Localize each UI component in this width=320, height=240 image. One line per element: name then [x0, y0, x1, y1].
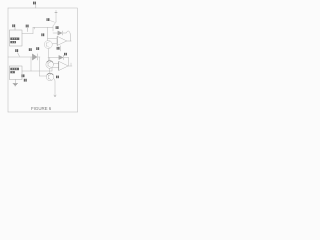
wire Q3 emitter down long [54, 79, 55, 97]
wire leader label 20 to wire A [15, 49, 18, 52]
wire after D1 [38, 56, 40, 58]
label 10 V+ [33, 2, 36, 5]
label 24 above D1 right [36, 47, 39, 50]
transistor Q3 [46, 73, 54, 81]
wire A left horizontal [8, 56, 32, 58]
wire below box B2 [14, 80, 16, 84]
diode D2 feedback [58, 31, 63, 35]
wire top rail [8, 7, 77, 9]
label 44 speck near D3 [64, 53, 67, 56]
wire feedback line lower [48, 58, 59, 61]
power terminal V+ lead [35, 5, 37, 9]
label 14 speck near jog [26, 25, 29, 28]
box B1 [10, 30, 23, 46]
label 46 speck right of Q3 [56, 76, 59, 79]
wire feedback to riser [63, 31, 70, 41]
label 28 below U1 [57, 47, 60, 50]
wire D3 to riser [64, 58, 69, 67]
transistor Q1 [44, 41, 52, 49]
ground below box B2 [13, 84, 18, 86]
wire box B1 output jog [22, 27, 53, 33]
label 16 near PNP tap [47, 18, 50, 21]
svg-text:FIGURE 6: FIGURE 6 [31, 106, 52, 111]
wire U1 input upper [48, 38, 58, 40]
diode D1 [33, 54, 38, 60]
wire U1 output [67, 40, 72, 42]
wire U2 output [68, 63, 72, 66]
box B1 text [10, 38, 19, 44]
wire arrow end Q3 emitter [54, 95, 56, 97]
label 26 beside Q1 wire [41, 33, 44, 36]
wire label leader above box B1 [14, 28, 16, 31]
wire right rail [77, 8, 79, 112]
wire U1 bottom stub [60, 46, 62, 51]
wire left rail [7, 8, 9, 112]
label 34 left of box B2 wire [22, 74, 25, 77]
wire riser x39 down to y76 [40, 57, 47, 76]
op-amp U1 [57, 37, 66, 46]
box B2 text [10, 68, 19, 74]
diode D3 [59, 55, 64, 59]
wire down to Q1 [47, 27, 49, 40]
wire Q1 emitter down [47, 49, 49, 62]
wire U1 input lower [53, 43, 58, 45]
junction tick on y27 line [33, 27, 35, 29]
label 22 above D1 [29, 48, 32, 51]
wire riser x31 down to y71 [30, 57, 32, 71]
wire bottom rail [8, 111, 78, 113]
wire PNP tap from top rail [53, 10, 56, 31]
box B2 [10, 66, 23, 80]
arrow tick on PNP tap [55, 11, 57, 13]
wire Q2 to Q3 [49, 68, 51, 73]
wire box B2 output y71 [22, 68, 59, 72]
label 30 below box B2 right [24, 79, 27, 82]
transistor Q2 [46, 61, 54, 69]
label 18 above feedback [56, 26, 59, 29]
wire Q2 to U2 input [54, 63, 59, 65]
op-amp U2 [59, 62, 68, 71]
wire feedback line upper [53, 32, 58, 34]
label 12 above box B1 [12, 24, 15, 27]
leader for label 16 [50, 21, 54, 23]
